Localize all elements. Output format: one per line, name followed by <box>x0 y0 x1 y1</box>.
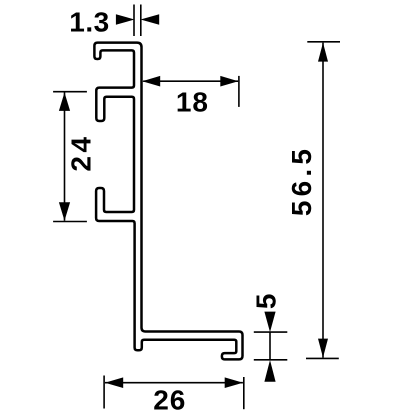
svg-text:56.5: 56.5 <box>286 145 317 216</box>
svg-text:26: 26 <box>153 385 186 416</box>
svg-text:5: 5 <box>250 294 281 310</box>
svg-text:18: 18 <box>176 86 209 117</box>
svg-text:24: 24 <box>65 133 96 171</box>
svg-text:1.3: 1.3 <box>69 7 109 38</box>
